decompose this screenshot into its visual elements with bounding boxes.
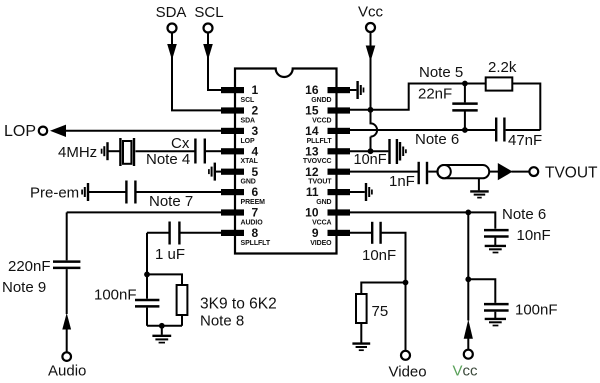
svg-text:VCCA: VCCA [312, 219, 331, 226]
svg-text:8: 8 [252, 226, 259, 240]
svg-text:4MHz: 4MHz [58, 144, 97, 161]
svg-text:1 uF: 1 uF [155, 246, 185, 263]
svg-text:Note 4: Note 4 [146, 151, 190, 168]
svg-text:15: 15 [305, 104, 319, 118]
svg-text:Audio: Audio [48, 363, 86, 380]
svg-text:10: 10 [305, 206, 319, 220]
svg-text:Pre-em: Pre-em [30, 185, 79, 202]
svg-text:220nF: 220nF [8, 258, 51, 275]
svg-text:3K9 to 6K2: 3K9 to 6K2 [200, 296, 277, 313]
svg-text:SPLLFLT: SPLLFLT [241, 240, 271, 247]
svg-text:TVOVCC: TVOVCC [303, 158, 332, 165]
svg-text:Note 8: Note 8 [200, 313, 244, 330]
svg-text:Note 9: Note 9 [2, 279, 46, 296]
svg-text:6: 6 [252, 185, 259, 199]
svg-text:VCCD: VCCD [312, 117, 331, 124]
svg-text:100nF: 100nF [515, 302, 558, 319]
svg-text:47nF: 47nF [508, 132, 542, 149]
svg-text:TVOUT: TVOUT [308, 179, 332, 186]
svg-text:1: 1 [252, 83, 259, 97]
svg-text:3: 3 [252, 124, 259, 138]
svg-text:PLLFLT: PLLFLT [307, 138, 333, 145]
svg-text:14: 14 [305, 124, 319, 138]
svg-text:Note 6: Note 6 [415, 131, 459, 148]
svg-text:TVOUT: TVOUT [545, 165, 598, 182]
svg-text:22nF: 22nF [418, 86, 452, 103]
svg-text:2.2k: 2.2k [488, 59, 517, 76]
svg-text:100nF: 100nF [94, 287, 137, 304]
svg-text:1nF: 1nF [389, 173, 415, 190]
svg-text:XTAL: XTAL [241, 158, 259, 165]
svg-text:75: 75 [372, 303, 389, 320]
svg-text:10nF: 10nF [354, 152, 387, 168]
svg-text:12: 12 [305, 165, 319, 179]
svg-text:16: 16 [305, 83, 319, 97]
svg-text:5: 5 [252, 165, 259, 179]
svg-text:Vcc: Vcc [453, 363, 479, 380]
svg-text:SCL: SCL [194, 4, 223, 21]
svg-text:SDA: SDA [156, 4, 187, 21]
svg-text:11: 11 [306, 185, 319, 199]
svg-text:LOP: LOP [241, 138, 256, 145]
svg-text:7: 7 [252, 206, 259, 220]
svg-text:Note 6: Note 6 [502, 206, 546, 223]
svg-text:2: 2 [252, 104, 259, 118]
svg-text:AUDIO: AUDIO [241, 219, 264, 226]
svg-text:10nF: 10nF [362, 247, 396, 264]
svg-text:4: 4 [252, 144, 259, 158]
svg-text:Note 7: Note 7 [149, 193, 193, 210]
svg-text:13: 13 [305, 144, 319, 158]
svg-text:GND: GND [316, 199, 331, 206]
svg-text:9: 9 [312, 226, 319, 240]
svg-text:Vcc: Vcc [358, 4, 384, 21]
svg-text:SDA: SDA [241, 117, 256, 124]
svg-text:Video: Video [389, 364, 427, 381]
svg-text:VIDEO: VIDEO [310, 240, 332, 247]
svg-text:10nF: 10nF [517, 227, 551, 244]
svg-text:Cx: Cx [171, 135, 190, 152]
svg-text:LOP: LOP [4, 123, 36, 140]
svg-text:GND: GND [241, 179, 256, 186]
svg-text:GNDD: GNDD [311, 97, 331, 104]
svg-text:PREEM: PREEM [241, 199, 266, 206]
svg-text:Note 5: Note 5 [419, 64, 463, 81]
svg-text:SCL: SCL [241, 97, 256, 104]
